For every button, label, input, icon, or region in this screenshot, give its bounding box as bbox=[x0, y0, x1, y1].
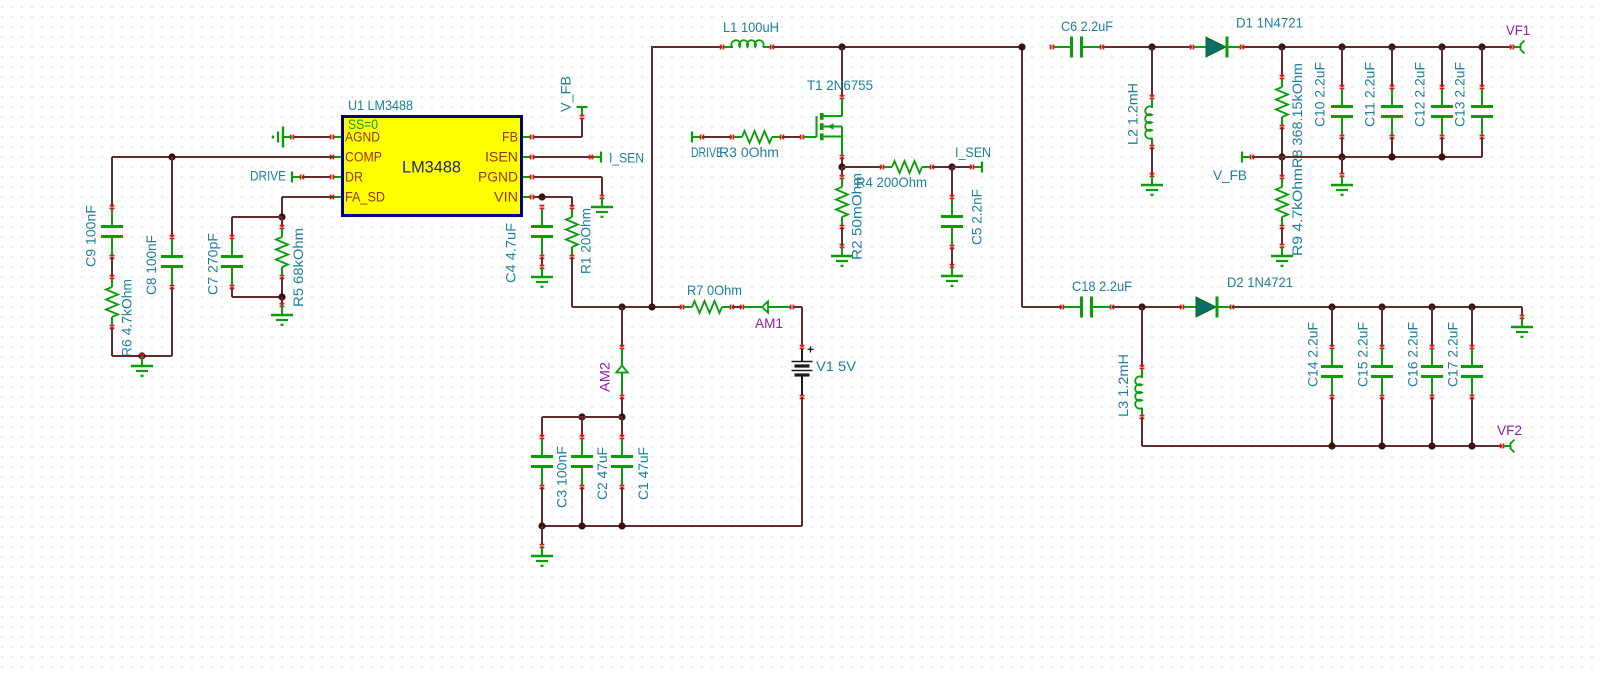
svg-text:C2 47uF: C2 47uF bbox=[594, 447, 610, 500]
label U1 bbox=[348, 97, 413, 113]
label C7 bbox=[205, 233, 221, 295]
junction bottom bus C2 bbox=[578, 522, 585, 529]
junction cap bank top C1 bbox=[618, 413, 625, 420]
wire C14 bottom lead bbox=[1331, 397, 1333, 446]
wire fb bottom bus bbox=[1282, 137, 1482, 157]
svg-text:R6 4.7kOhm: R6 4.7kOhm bbox=[119, 279, 135, 357]
label C13 bbox=[1452, 62, 1468, 127]
wire C18-D2 bbox=[1112, 306, 1182, 308]
wire L3 top lead bbox=[1141, 307, 1143, 367]
svg-text:VIN: VIN bbox=[494, 189, 518, 205]
svg-text:C17 2.2uF: C17 2.2uF bbox=[1445, 322, 1461, 387]
wire C5 top lead bbox=[951, 167, 953, 197]
pin AGND bbox=[345, 129, 380, 145]
svg-text:FB: FB bbox=[502, 129, 518, 145]
wire L3 bottom bbox=[1142, 417, 1502, 446]
label C10 bbox=[1312, 62, 1328, 127]
ground under R2 bbox=[831, 244, 853, 267]
label L2 bbox=[1125, 83, 1141, 145]
ground right end bbox=[1511, 315, 1533, 338]
resistor R7 bbox=[680, 301, 735, 313]
junction T1 drain on rail bbox=[838, 43, 845, 50]
wire FA_SD net bbox=[282, 197, 334, 217]
wire R8 bottom lead bbox=[1281, 127, 1283, 157]
label DRIVE left bbox=[250, 168, 286, 184]
svg-text:C6 2.2uF: C6 2.2uF bbox=[1061, 18, 1113, 34]
wire PGND net bbox=[534, 177, 602, 195]
wire C11 top lead bbox=[1391, 47, 1393, 87]
wire cap bank top bus bbox=[542, 417, 622, 437]
svg-text:D1 1N4721: D1 1N4721 bbox=[1236, 15, 1303, 31]
svg-text:C12 2.2uF: C12 2.2uF bbox=[1412, 62, 1428, 127]
wire C14 top lead bbox=[1331, 307, 1333, 347]
inductor L3 bbox=[1135, 365, 1144, 420]
junction fb bus C12 bbox=[1438, 153, 1445, 160]
junction C4 top bbox=[538, 193, 545, 200]
ground AGND sideways bbox=[272, 127, 295, 148]
wire L2 top lead bbox=[1151, 47, 1153, 97]
wire AM2 top lead bbox=[621, 307, 623, 347]
capacitor C12 bbox=[1431, 85, 1453, 140]
label R9 bbox=[1289, 168, 1305, 256]
junction C14 top bbox=[1328, 303, 1335, 310]
capacitor C4 bbox=[531, 205, 553, 260]
junction C8 top bbox=[168, 153, 175, 160]
junction I_SEN node bbox=[948, 163, 955, 170]
capacitor C6 bbox=[1050, 37, 1105, 58]
svg-text:I_SEN: I_SEN bbox=[955, 144, 991, 160]
wire second vertical rail bbox=[1021, 46, 1023, 307]
svg-text:V_FB: V_FB bbox=[558, 76, 574, 112]
junction C15 bottom bbox=[1378, 442, 1385, 449]
junction fb bus C10 bbox=[1338, 153, 1345, 160]
svg-text:C11 2.2uF: C11 2.2uF bbox=[1362, 62, 1378, 127]
terminal VF1 bbox=[1510, 41, 1525, 54]
svg-text:C9 100nF: C9 100nF bbox=[83, 205, 99, 267]
svg-text:L3 1.2mH: L3 1.2mH bbox=[1115, 354, 1131, 417]
svg-text:D2 1N4721: D2 1N4721 bbox=[1227, 274, 1293, 290]
label T1 bbox=[807, 77, 873, 93]
wire C10 top lead bbox=[1341, 47, 1343, 87]
wire C8 bottom lead bbox=[171, 287, 173, 356]
wire top rail C6-to-D1 bbox=[1102, 46, 1192, 48]
svg-text:COMP: COMP bbox=[345, 149, 382, 165]
svg-text:C7 270pF: C7 270pF bbox=[205, 233, 221, 295]
ground under C10 bbox=[1331, 173, 1353, 196]
capacitor C14 bbox=[1321, 345, 1343, 400]
wire C1 bottom lead bbox=[621, 487, 623, 526]
wire C13 bottom lead bbox=[1481, 137, 1483, 157]
svg-text:R7 0Ohm: R7 0Ohm bbox=[687, 282, 742, 298]
ground under C5 bbox=[941, 264, 963, 287]
ammeter AM2 bbox=[616, 345, 627, 400]
svg-text:C14 2.2uF: C14 2.2uF bbox=[1305, 322, 1321, 387]
label L3 bbox=[1115, 354, 1131, 417]
transistor T1 2N6755 bbox=[800, 95, 845, 160]
label R1 bbox=[578, 208, 594, 274]
label R4 bbox=[856, 174, 927, 190]
ground under C3 bbox=[531, 544, 553, 567]
wire C11 bottom lead bbox=[1391, 137, 1393, 157]
junction rail bottom bbox=[648, 303, 655, 310]
ground PGND bbox=[591, 195, 613, 218]
wire C9-R6 bbox=[111, 257, 113, 277]
svg-text:VF2: VF2 bbox=[1497, 422, 1522, 438]
junction C10 top bbox=[1338, 43, 1345, 50]
wire R4-to-isen node bbox=[932, 166, 952, 168]
wire C3 to ground bbox=[541, 526, 543, 544]
svg-text:C8 100nF: C8 100nF bbox=[143, 235, 159, 295]
wire T1 source to node bbox=[841, 157, 843, 167]
label DRIVE mid bbox=[691, 144, 723, 160]
terminal VF2 bbox=[1500, 440, 1515, 453]
junction C15 top bbox=[1378, 303, 1385, 310]
svg-text:C18 2.2uF: C18 2.2uF bbox=[1072, 278, 1132, 294]
wire R9 top lead bbox=[1281, 157, 1283, 177]
label VF2 bbox=[1497, 422, 1522, 438]
label C15 bbox=[1355, 322, 1371, 387]
capacitor C13 bbox=[1471, 85, 1493, 140]
svg-text:LM3488: LM3488 bbox=[402, 158, 461, 177]
wire node-to-I_SEN term bbox=[952, 166, 972, 168]
terminal DRIVE mid bbox=[692, 132, 704, 143]
wire C3 bottom lead bbox=[541, 487, 543, 526]
terminal V_FB right bbox=[1242, 152, 1254, 163]
junction R5 bottom bbox=[278, 293, 285, 300]
capacitor C10 bbox=[1331, 85, 1353, 140]
wire C17 top lead bbox=[1471, 307, 1473, 347]
svg-text:C1 47uF: C1 47uF bbox=[635, 447, 651, 500]
label LM3488 bbox=[402, 158, 461, 177]
capacitor C9 bbox=[101, 205, 123, 260]
ammeter AM1 bbox=[740, 301, 795, 312]
label AM1 bbox=[755, 315, 783, 331]
svg-text:L1 100uH: L1 100uH bbox=[723, 19, 779, 35]
label C4 bbox=[503, 223, 519, 283]
junction rail-to-row2 bbox=[1018, 43, 1025, 50]
label SS=0 bbox=[348, 116, 378, 132]
label C2 bbox=[594, 447, 610, 500]
svg-text:T1 2N6755: T1 2N6755 bbox=[807, 77, 873, 93]
pin COMP bbox=[345, 149, 382, 165]
wire C10 gnd lead bbox=[1341, 157, 1343, 173]
junction bottom bus C3 bbox=[538, 522, 545, 529]
svg-text:R4 200Ohm: R4 200Ohm bbox=[856, 174, 927, 190]
capacitor C1 bbox=[611, 435, 633, 490]
svg-text:R5 68kOhm: R5 68kOhm bbox=[290, 228, 306, 307]
svg-text:R1 20Ohm: R1 20Ohm bbox=[578, 208, 594, 274]
label R3 bbox=[719, 144, 779, 160]
wire AM2 bottom lead bbox=[621, 397, 623, 417]
junction fb bus C11 bbox=[1388, 153, 1395, 160]
junction AM2 top bbox=[618, 303, 625, 310]
label R5 bbox=[290, 228, 306, 307]
svg-text:U1 LM3488: U1 LM3488 bbox=[348, 97, 413, 113]
wire R8 top lead bbox=[1281, 47, 1283, 77]
inductor L2 bbox=[1145, 95, 1154, 150]
junction C14 bottom bbox=[1328, 442, 1335, 449]
wire left vertical rail bbox=[651, 46, 653, 307]
resistor R4 bbox=[880, 161, 935, 173]
wire R2 bottom lead bbox=[841, 227, 843, 246]
capacitor C15 bbox=[1371, 345, 1393, 400]
wire DR net bbox=[302, 176, 330, 178]
label V1 plus bbox=[807, 343, 814, 357]
wire D2-to-gnd right bbox=[1232, 307, 1522, 315]
svg-text:VF1: VF1 bbox=[1506, 22, 1530, 38]
resistor R2 bbox=[836, 175, 848, 230]
wire R6 bottom bbox=[112, 327, 172, 356]
wire C12 bottom lead bbox=[1441, 137, 1443, 157]
label R8 bbox=[1289, 63, 1305, 168]
pin DR bbox=[345, 169, 363, 185]
pin FA_SD bbox=[345, 189, 385, 205]
wire COMP net bbox=[112, 157, 334, 207]
wire C13 top lead bbox=[1481, 47, 1483, 87]
label VF1 bbox=[1506, 22, 1530, 38]
svg-text:C5 2.2nF: C5 2.2nF bbox=[969, 189, 985, 245]
label C14 bbox=[1305, 322, 1321, 387]
label C11 bbox=[1362, 62, 1378, 127]
terminal DRIVE left bbox=[292, 172, 304, 183]
label D1 bbox=[1236, 15, 1303, 31]
wire R9 bottom lead bbox=[1281, 227, 1283, 244]
ground left bottom bbox=[131, 354, 153, 377]
resistor R6 bbox=[106, 275, 118, 330]
terminal I_SEN left bbox=[589, 152, 601, 163]
wire C16 bottom lead bbox=[1431, 397, 1433, 446]
label D2 bbox=[1227, 274, 1293, 290]
label C5 bbox=[969, 189, 985, 245]
resistor R5 bbox=[276, 225, 288, 280]
diode D1 1N4721 bbox=[1190, 37, 1245, 58]
label V1 bbox=[816, 358, 857, 374]
wire DRIVE-to-R3 bbox=[702, 136, 732, 138]
wire C15 bottom lead bbox=[1381, 397, 1383, 446]
svg-text:AM2: AM2 bbox=[597, 362, 613, 392]
svg-text:PGND: PGND bbox=[478, 169, 518, 185]
resistor R1 bbox=[566, 205, 578, 260]
junction R8 top bbox=[1278, 43, 1285, 50]
svg-text:R8 368.15kOhm: R8 368.15kOhm bbox=[1289, 63, 1305, 168]
junction C17 bottom bbox=[1468, 442, 1475, 449]
label C18 bbox=[1072, 278, 1132, 294]
svg-text:ISEN: ISEN bbox=[485, 149, 518, 165]
wire R2 top lead bbox=[841, 167, 843, 177]
ground under R5 bbox=[271, 303, 293, 326]
svg-text:C10 2.2uF: C10 2.2uF bbox=[1312, 62, 1328, 127]
svg-text:R2 50mOhm: R2 50mOhm bbox=[849, 173, 865, 260]
junction ground node left bbox=[138, 352, 145, 359]
svg-text:DR: DR bbox=[345, 169, 363, 185]
capacitor C16 bbox=[1421, 345, 1443, 400]
wire node-to-R4 bbox=[842, 166, 882, 168]
svg-text:+: + bbox=[807, 343, 814, 357]
wire C15 top lead bbox=[1381, 307, 1383, 347]
wire C16 top lead bbox=[1431, 307, 1433, 347]
inductor L1 bbox=[720, 40, 775, 49]
label C1 bbox=[635, 447, 651, 500]
wire R7-AM1 bbox=[732, 306, 742, 308]
terminal V_FB top bbox=[577, 107, 588, 119]
wire top rail left segment bbox=[652, 46, 722, 48]
pin PGND bbox=[478, 169, 518, 185]
terminal I_SEN right bbox=[970, 162, 982, 173]
wire top rail D1-to-VF1 bbox=[1242, 46, 1512, 48]
junction C12 top bbox=[1438, 43, 1445, 50]
svg-text:R9 4.7kOhm: R9 4.7kOhm bbox=[1289, 168, 1305, 256]
capacitor C18 bbox=[1060, 297, 1115, 318]
wire C7 bottom bbox=[232, 287, 282, 297]
wire R3-to-gate bbox=[782, 136, 800, 138]
svg-text:C16 2.2uF: C16 2.2uF bbox=[1405, 322, 1421, 387]
resistor R9 bbox=[1276, 175, 1288, 230]
svg-text:AGND: AGND bbox=[345, 129, 380, 145]
svg-text:C4 4.7uF: C4 4.7uF bbox=[503, 223, 519, 283]
label C3 bbox=[554, 446, 570, 508]
junction C17 top bbox=[1468, 303, 1475, 310]
svg-text:V_FB: V_FB bbox=[1213, 167, 1247, 183]
junction L2 tap bbox=[1148, 43, 1155, 50]
wire AM1-to-V1 bbox=[794, 307, 802, 347]
junction C16 top bbox=[1428, 303, 1435, 310]
svg-text:V1 5V: V1 5V bbox=[816, 358, 857, 374]
wire to gnd R5 bbox=[281, 297, 283, 305]
svg-text:I_SEN: I_SEN bbox=[609, 150, 644, 166]
wire V1 bottom bbox=[542, 397, 802, 526]
capacitor C3 bbox=[531, 435, 553, 490]
label C12 bbox=[1412, 62, 1428, 127]
capacitor C5 bbox=[941, 195, 963, 250]
svg-text:AM1: AM1 bbox=[755, 315, 783, 331]
wire C8 top lead bbox=[171, 157, 173, 237]
svg-text:C13 2.2uF: C13 2.2uF bbox=[1452, 62, 1468, 127]
junction bottom bus C1 bbox=[618, 522, 625, 529]
ground under R9 bbox=[1271, 244, 1293, 267]
label C8 bbox=[143, 235, 159, 295]
label I_SEN right bbox=[955, 144, 991, 160]
junction V_FB node bbox=[1278, 153, 1285, 160]
wire L2 bottom lead bbox=[1151, 147, 1153, 175]
svg-text:R3 0Ohm: R3 0Ohm bbox=[719, 144, 779, 160]
wire C12 top lead bbox=[1441, 47, 1443, 87]
label I_SEN left bbox=[609, 150, 644, 166]
label C9 bbox=[83, 205, 99, 267]
battery V1 5V bbox=[792, 345, 813, 400]
wire C2 top lead bbox=[581, 417, 583, 437]
wire to C7 bbox=[232, 217, 282, 237]
pin ISEN bbox=[485, 149, 518, 165]
wire AGND bbox=[294, 136, 330, 138]
junction R5 top bbox=[278, 213, 285, 220]
wire C10 bottom lead bbox=[1341, 137, 1343, 157]
svg-text:L2 1.2mH: L2 1.2mH bbox=[1125, 83, 1141, 145]
wire ISEN net bbox=[534, 156, 592, 158]
junction cap bank top C2 bbox=[578, 413, 585, 420]
svg-text:FA_SD: FA_SD bbox=[345, 189, 385, 205]
capacitor C2 bbox=[571, 435, 593, 490]
wire C5 bottom lead bbox=[951, 247, 953, 266]
resistor R8 bbox=[1276, 75, 1288, 130]
junction C16 bottom bbox=[1428, 442, 1435, 449]
label R2 bbox=[849, 173, 865, 260]
junction L3 tap bbox=[1138, 303, 1145, 310]
label R7 bbox=[687, 282, 742, 298]
label V_FB top bbox=[558, 76, 574, 112]
wire row2 left bbox=[1022, 306, 1062, 308]
label C17 bbox=[1445, 322, 1461, 387]
wire C17 bottom lead bbox=[1471, 397, 1473, 446]
label V_FB right bbox=[1213, 167, 1247, 183]
junction T1 source node bbox=[838, 163, 845, 170]
label AM2 bbox=[597, 362, 613, 392]
wire R1 bottom bbox=[572, 257, 682, 307]
pin FB bbox=[502, 129, 518, 145]
label C6 bbox=[1061, 18, 1113, 34]
wire FB net bbox=[534, 119, 582, 137]
capacitor C17 bbox=[1461, 345, 1483, 400]
wire VIN net bbox=[534, 197, 572, 207]
junction C11 top bbox=[1388, 43, 1395, 50]
wire V_FB to node bbox=[1252, 156, 1282, 158]
pin VIN bbox=[494, 189, 518, 205]
wire C1 top lead bbox=[621, 417, 623, 437]
wire C4 bottom lead bbox=[541, 257, 543, 265]
op-amp U1 LM3488 box bbox=[330, 117, 535, 216]
label R6 bbox=[119, 279, 135, 357]
ground under C4 bbox=[531, 265, 553, 288]
junction C13 top bbox=[1478, 43, 1485, 50]
svg-text:C15 2.2uF: C15 2.2uF bbox=[1355, 322, 1371, 387]
wire C2 bottom lead bbox=[581, 487, 583, 526]
svg-text:DRIVE: DRIVE bbox=[250, 168, 286, 184]
wire R5 bottom lead bbox=[281, 277, 283, 297]
label C16 bbox=[1405, 322, 1421, 387]
capacitor C7 bbox=[221, 235, 243, 290]
capacitor C8 bbox=[161, 235, 183, 290]
ground under L2 bbox=[1141, 173, 1163, 196]
wire T1 drain bbox=[841, 47, 843, 97]
wire top rail L1-to-T1 bbox=[772, 46, 1022, 48]
resistor R3 bbox=[730, 131, 785, 143]
wire R5 top lead bbox=[281, 217, 283, 227]
svg-text:C3 100nF: C3 100nF bbox=[554, 446, 570, 508]
diode D2 1N4721 bbox=[1180, 297, 1235, 318]
label L1 bbox=[723, 19, 779, 35]
capacitor C11 bbox=[1381, 85, 1403, 140]
